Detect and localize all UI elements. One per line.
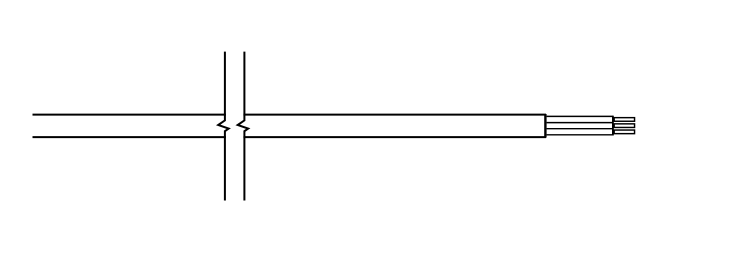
wire: cable top edge, right segment bbox=[243, 114, 546, 116]
bare conductor strand 3 bbox=[614, 130, 634, 134]
insulation divider line 2 bbox=[547, 128, 614, 130]
break line B2 (vertical with zigzag) bbox=[238, 52, 249, 201]
break line B1 (vertical with zigzag) bbox=[218, 52, 229, 201]
wire: cable top edge, left segment bbox=[33, 114, 226, 116]
insulation divider line 1 bbox=[547, 122, 614, 124]
jacket end (outer sheath cut line) bbox=[544, 114, 546, 138]
bare conductor strand 2 bbox=[614, 124, 634, 128]
insulation end cut line bbox=[612, 116, 614, 136]
insulation bundle top edge bbox=[547, 115, 614, 117]
insulation bundle bottom edge bbox=[547, 134, 614, 136]
bare conductor strand 1 bbox=[614, 118, 634, 122]
wire: cable bottom edge, left segment bbox=[33, 136, 226, 138]
wire: cable bottom edge, right segment bbox=[243, 136, 546, 138]
